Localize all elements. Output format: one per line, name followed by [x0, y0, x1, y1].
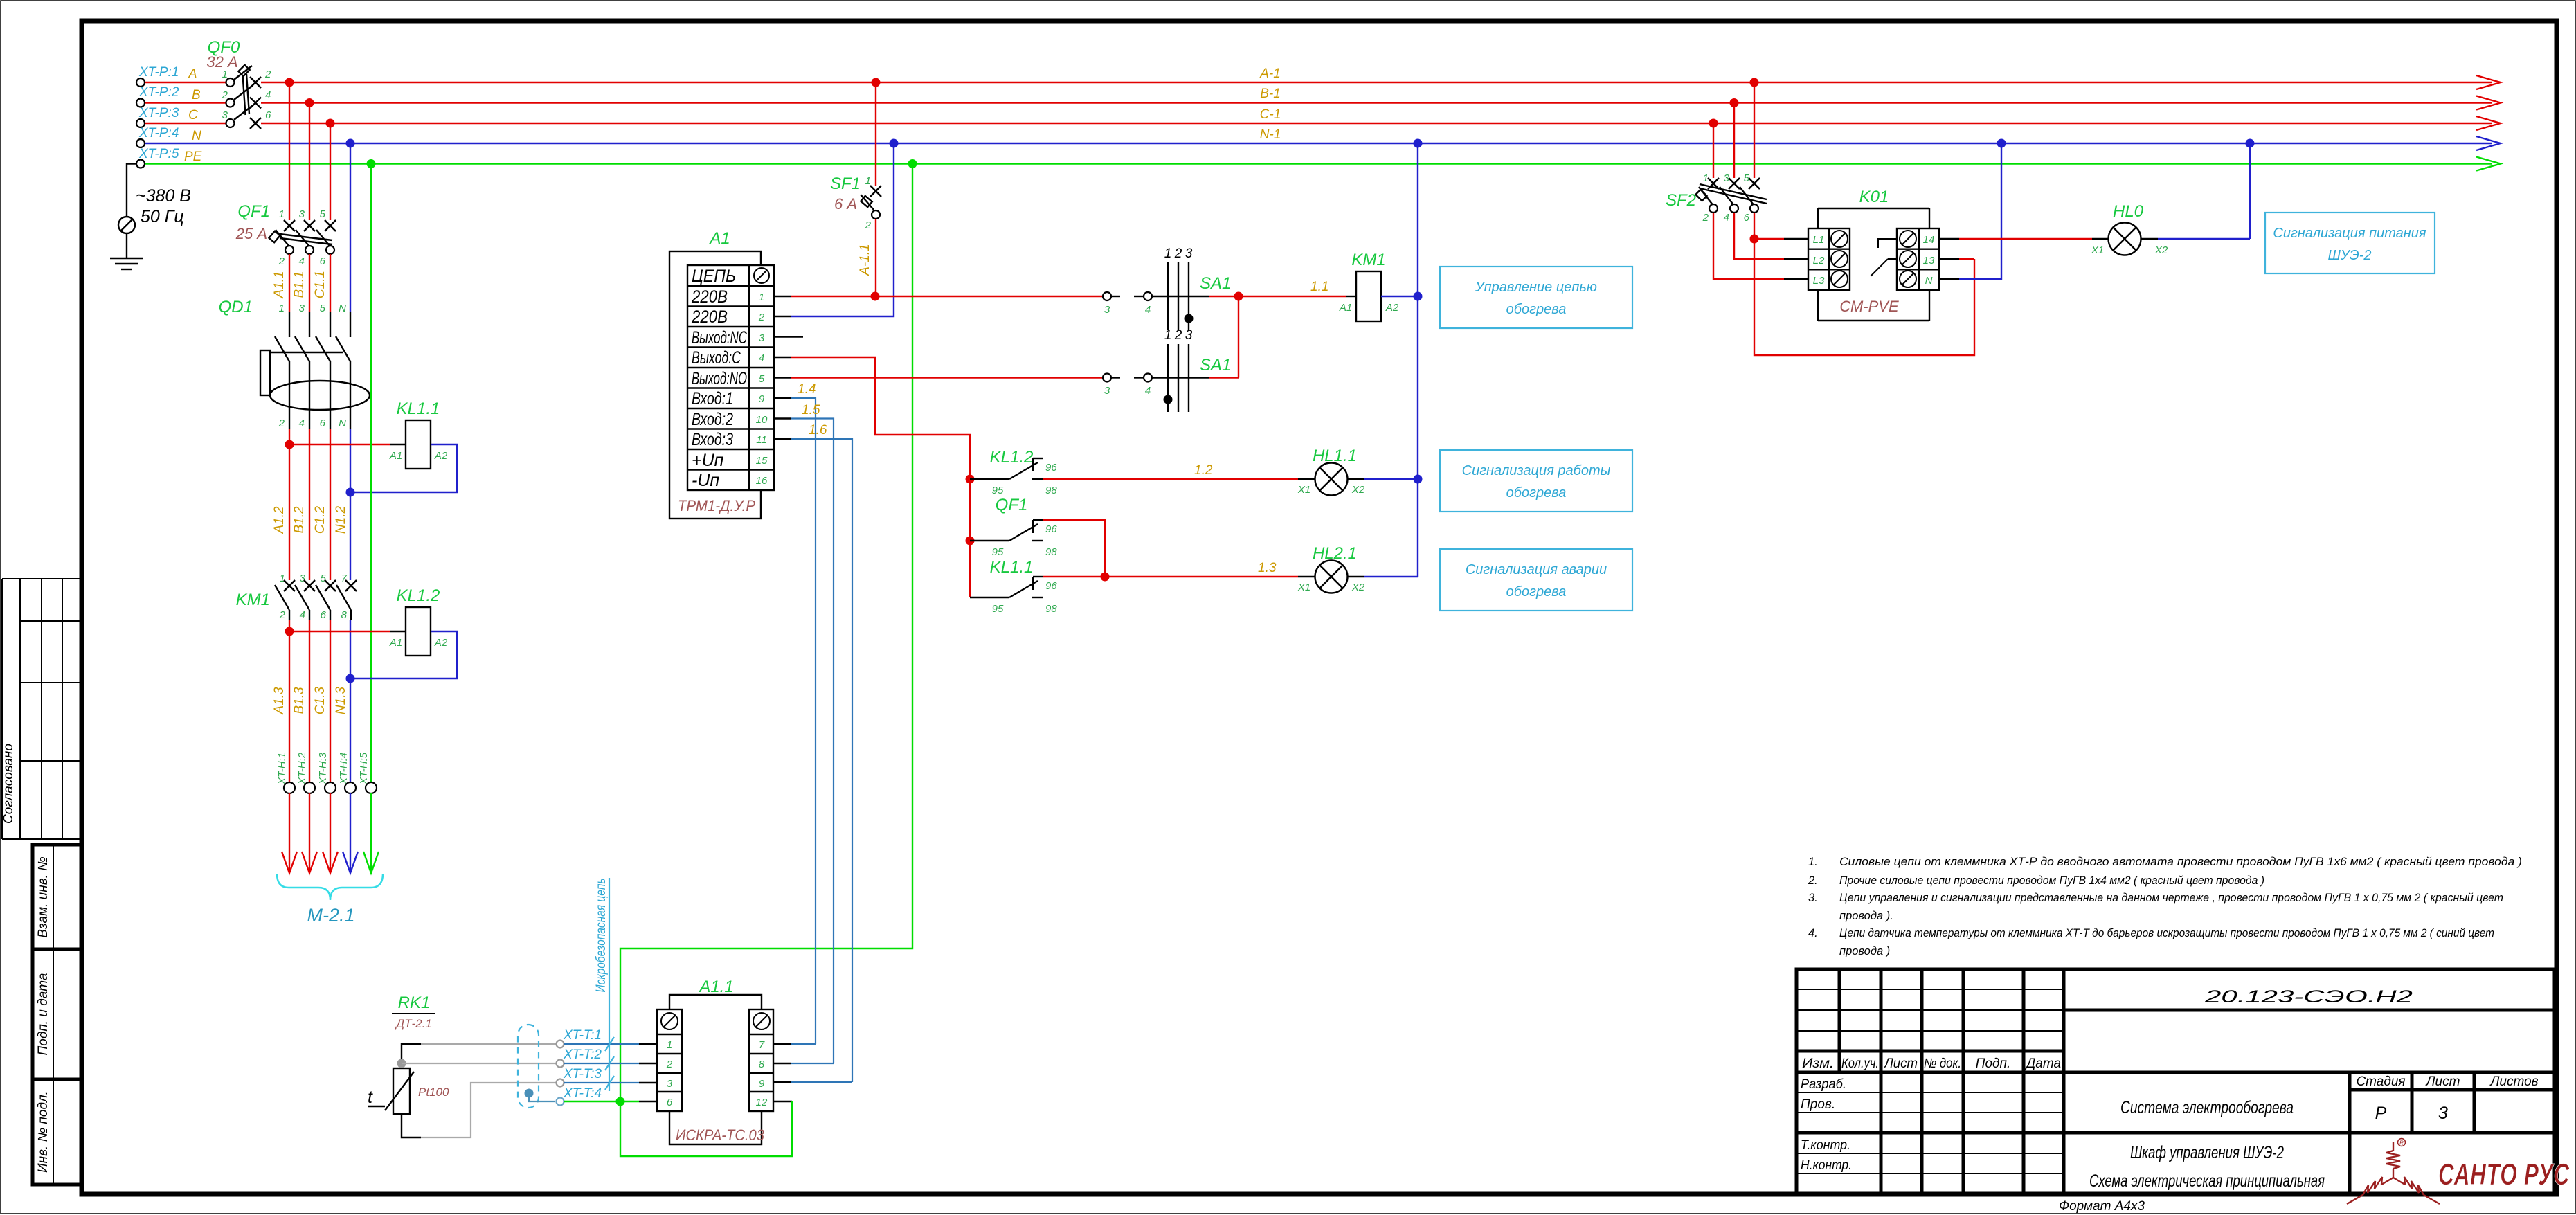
svg-text:SA1: SA1 [1200, 274, 1231, 293]
svg-text:95: 95 [992, 546, 1004, 558]
svg-text:1: 1 [279, 208, 285, 220]
svg-text:A1: A1 [1339, 302, 1352, 314]
svg-text:98: 98 [1045, 546, 1057, 558]
svg-text:Управление цепью: Управление цепью [1475, 280, 1597, 295]
svg-text:R: R [2399, 1140, 2404, 1146]
svg-text:L2: L2 [1813, 255, 1825, 267]
svg-text:Цепи управления и сигнализа: Цепи управления и сигнализации представл… [1839, 892, 2503, 904]
svg-text:Pt100: Pt100 [418, 1086, 449, 1099]
svg-text:Выход:NO: Выход:NO [692, 369, 747, 388]
svg-text:XT-P:4: XT-P:4 [138, 126, 179, 141]
svg-text:X2: X2 [1351, 484, 1365, 496]
svg-text:5: 5 [320, 208, 326, 220]
svg-text:B1.1: B1.1 [292, 271, 307, 298]
svg-text:A1: A1 [708, 229, 730, 248]
svg-text:XT-H:3: XT-H:3 [317, 752, 329, 785]
svg-text:1: 1 [667, 1039, 672, 1051]
svg-text:провода ): провода ) [1839, 945, 1890, 957]
svg-text:A: A [188, 67, 197, 82]
svg-text:N: N [339, 303, 346, 314]
svg-text:SF1: SF1 [830, 174, 861, 193]
svg-text:обогрева: обогрева [1506, 302, 1567, 317]
svg-text:2: 2 [278, 417, 285, 429]
svg-text:Подп. и дата: Подп. и дата [36, 973, 51, 1056]
svg-text:C1.2: C1.2 [313, 506, 327, 534]
svg-text:A2: A2 [434, 637, 448, 649]
svg-text:12: 12 [756, 1097, 768, 1108]
svg-text:С-1: С-1 [1260, 107, 1281, 122]
svg-text:1: 1 [759, 291, 764, 303]
svg-text:8: 8 [759, 1059, 765, 1070]
svg-text:N: N [339, 417, 346, 429]
svg-text:Сигнализация питания: Сигнализация питания [2273, 226, 2426, 241]
svg-text:4: 4 [300, 609, 305, 621]
svg-text:3: 3 [759, 332, 765, 344]
svg-text:A1: A1 [389, 637, 402, 649]
svg-text:C: C [188, 108, 198, 123]
svg-text:A1.1: A1.1 [272, 271, 287, 298]
svg-text:X1: X1 [2091, 244, 2104, 256]
svg-text:ИСКРА-ТС.03: ИСКРА-ТС.03 [676, 1126, 765, 1144]
svg-text:5: 5 [321, 573, 327, 584]
svg-text:96: 96 [1045, 580, 1057, 592]
svg-text:Схема электрическая принципиал: Схема электрическая принципиальная [2089, 1171, 2325, 1191]
svg-text:Подп.: Подп. [1976, 1056, 2011, 1071]
svg-text:№ док.: № док. [1924, 1056, 1961, 1071]
svg-text:6 А: 6 А [834, 195, 857, 213]
svg-text:СМ-PVE: СМ-PVE [1839, 298, 1899, 315]
svg-text:A1.1: A1.1 [698, 978, 733, 996]
svg-text:20.123-СЭО.Н2: 20.123-СЭО.Н2 [2204, 987, 2413, 1007]
svg-text:1.6: 1.6 [809, 423, 827, 438]
svg-text:KL1.1: KL1.1 [990, 558, 1034, 577]
svg-text:15: 15 [756, 455, 768, 467]
svg-text:QD1: QD1 [219, 298, 253, 316]
svg-text:14: 14 [1923, 234, 1935, 246]
svg-text:Инв. № подл.: Инв. № подл. [36, 1091, 51, 1173]
svg-text:XT-H:2: XT-H:2 [296, 752, 308, 785]
svg-text:Формат А4х3: Формат А4х3 [2059, 1199, 2145, 1214]
svg-text:N-1: N-1 [1260, 127, 1281, 142]
svg-text:XT-H:4: XT-H:4 [338, 753, 350, 785]
svg-text:X2: X2 [2154, 244, 2168, 256]
svg-text:9: 9 [759, 1078, 765, 1090]
svg-text:5: 5 [759, 373, 765, 385]
svg-text:2.: 2. [1808, 874, 1818, 887]
svg-text:X2: X2 [1351, 582, 1365, 593]
svg-text:QF1: QF1 [996, 496, 1028, 514]
svg-text:Дата: Дата [2025, 1056, 2061, 1071]
svg-text:95: 95 [992, 603, 1004, 615]
svg-text:+Uп: +Uп [692, 451, 724, 470]
svg-text:Цепи датчика температуры от: Цепи датчика температуры от клеммника ХТ… [1839, 927, 2494, 939]
svg-text:1: 1 [865, 175, 871, 187]
svg-text:1: 1 [1164, 246, 1172, 261]
svg-text:3: 3 [667, 1078, 673, 1090]
svg-text:Кол.уч.: Кол.уч. [1841, 1056, 1879, 1071]
svg-text:XT-T:4: XT-T:4 [563, 1086, 602, 1101]
svg-text:2: 2 [279, 609, 286, 621]
svg-text:2: 2 [1702, 212, 1709, 224]
svg-text:A2: A2 [1385, 302, 1399, 314]
svg-text:K01: K01 [1859, 188, 1889, 206]
svg-text:3: 3 [1185, 328, 1193, 343]
svg-text:-Uп: -Uп [692, 471, 719, 490]
svg-text:6: 6 [265, 109, 271, 121]
svg-text:5: 5 [1744, 172, 1750, 184]
svg-text:3: 3 [299, 303, 305, 314]
svg-text:Н.контр.: Н.контр. [1801, 1158, 1852, 1173]
svg-text:Лист: Лист [2425, 1074, 2460, 1089]
svg-text:N: N [192, 129, 201, 143]
svg-text:2: 2 [1174, 328, 1182, 343]
svg-text:50 Гц: 50 Гц [141, 207, 184, 226]
svg-text:Система электрообогрева: Система электрообогрева [2120, 1098, 2294, 1117]
svg-text:B1.3: B1.3 [292, 687, 307, 714]
svg-text:3: 3 [299, 208, 305, 220]
svg-text:A1: A1 [389, 450, 402, 462]
svg-text:XT-P:2: XT-P:2 [138, 85, 179, 100]
svg-text:Вход:3: Вход:3 [692, 430, 733, 449]
svg-text:KM1: KM1 [1351, 251, 1385, 269]
svg-text:Взам. инв. №: Взам. инв. № [36, 856, 51, 938]
svg-text:3: 3 [2438, 1104, 2448, 1123]
svg-text:6: 6 [1744, 212, 1750, 224]
svg-text:3: 3 [300, 573, 306, 584]
svg-text:ЦЕПЬ: ЦЕПЬ [692, 267, 736, 286]
svg-text:4: 4 [1724, 212, 1729, 224]
svg-text:N: N [1925, 275, 1933, 287]
svg-text:1.2: 1.2 [1194, 463, 1213, 478]
svg-text:6: 6 [321, 609, 327, 621]
svg-text:L1: L1 [1813, 234, 1825, 246]
svg-text:1: 1 [1164, 328, 1172, 343]
svg-text:7: 7 [341, 573, 348, 584]
svg-text:Пров.: Пров. [1801, 1097, 1835, 1112]
svg-text:1: 1 [280, 573, 285, 584]
svg-text:KL1.1: KL1.1 [397, 399, 440, 418]
svg-text:XT-H:1: XT-H:1 [276, 753, 288, 785]
svg-text:HL0: HL0 [2113, 202, 2144, 221]
svg-text:25 А: 25 А [235, 225, 267, 242]
svg-text:6: 6 [320, 255, 326, 267]
svg-text:4: 4 [1145, 385, 1151, 397]
svg-text:Шкаф управления ШУЭ-2: Шкаф управления ШУЭ-2 [2130, 1143, 2284, 1162]
svg-text:220В: 220В [691, 287, 728, 307]
svg-text:Вход:2: Вход:2 [692, 410, 733, 429]
svg-text:KL1.2: KL1.2 [397, 586, 440, 605]
svg-text:1.5: 1.5 [802, 403, 820, 417]
svg-text:11: 11 [756, 434, 767, 446]
svg-text:провода ).: провода ). [1839, 910, 1893, 922]
svg-text:ТРМ1-Д.У.Р: ТРМ1-Д.У.Р [678, 497, 755, 514]
svg-text:Выход:C: Выход:C [692, 348, 741, 368]
svg-text:3: 3 [1724, 172, 1730, 184]
svg-text:2: 2 [264, 69, 271, 80]
svg-text:95: 95 [992, 485, 1004, 496]
svg-text:10: 10 [756, 414, 768, 426]
svg-text:А-1.1: А-1.1 [858, 244, 872, 276]
svg-text:6: 6 [320, 417, 326, 429]
svg-text:1.: 1. [1808, 856, 1818, 868]
svg-text:Разраб.: Разраб. [1801, 1077, 1846, 1092]
svg-text:XT-P:5: XT-P:5 [138, 147, 179, 161]
svg-text:обогрева: обогрева [1506, 584, 1567, 600]
svg-text:16: 16 [756, 475, 768, 487]
svg-text:2: 2 [758, 312, 765, 323]
svg-text:KM1: KM1 [236, 591, 270, 609]
svg-text:L3: L3 [1813, 275, 1825, 287]
svg-text:2: 2 [222, 89, 228, 101]
svg-text:N1.2: N1.2 [334, 506, 348, 534]
svg-text:SA1: SA1 [1200, 356, 1231, 375]
svg-text:QF1: QF1 [237, 202, 270, 221]
svg-text:Прочие силовые цепи провест: Прочие силовые цепи провести проводом Пу… [1839, 874, 2264, 887]
svg-text:XT-H:5: XT-H:5 [358, 752, 370, 785]
svg-text:2: 2 [666, 1059, 673, 1070]
svg-text:4.: 4. [1808, 927, 1818, 939]
svg-text:XT-T:3: XT-T:3 [563, 1067, 602, 1081]
svg-text:A2: A2 [434, 450, 448, 462]
svg-text:3: 3 [222, 109, 228, 121]
svg-text:Листов: Листов [2489, 1074, 2538, 1089]
svg-text:7: 7 [759, 1039, 765, 1051]
svg-text:Силовые цепи от клеммника ХТ-: Силовые цепи от клеммника ХТ-Р до вводно… [1839, 856, 2522, 868]
svg-text:SF2: SF2 [1666, 191, 1696, 210]
svg-text:ДТ-2.1: ДТ-2.1 [395, 1017, 432, 1030]
svg-text:Выход:NC: Выход:NC [692, 328, 748, 348]
svg-text:1.4: 1.4 [798, 382, 816, 397]
svg-text:обогрева: обогрева [1506, 485, 1567, 501]
svg-text:Т.контр.: Т.контр. [1801, 1138, 1850, 1153]
svg-text:Стадия: Стадия [2356, 1074, 2405, 1089]
svg-text:В-1: В-1 [1260, 87, 1281, 101]
svg-text:X1: X1 [1297, 582, 1310, 593]
svg-text:220В: 220В [691, 307, 728, 327]
svg-text:RK1: RK1 [398, 993, 431, 1012]
svg-text:4: 4 [299, 417, 305, 429]
svg-text:PE: PE [184, 150, 202, 164]
svg-text:98: 98 [1045, 485, 1057, 496]
svg-text:Согласовано: Согласовано [1, 744, 16, 824]
svg-text:KL1.2: KL1.2 [990, 448, 1034, 467]
svg-text:Сигнализация аварии: Сигнализация аварии [1466, 562, 1607, 577]
svg-text:Сигнализация работы: Сигнализация работы [1462, 463, 1611, 478]
svg-text:6: 6 [667, 1097, 673, 1108]
svg-text:N1.3: N1.3 [334, 687, 348, 715]
svg-text:4: 4 [1145, 304, 1151, 316]
svg-text:96: 96 [1045, 523, 1057, 535]
svg-text:САНТО РУС: САНТО РУС [2438, 1158, 2570, 1191]
svg-text:C1.3: C1.3 [313, 687, 327, 715]
svg-text:XT-T:1: XT-T:1 [563, 1028, 602, 1043]
svg-text:4: 4 [759, 352, 764, 364]
svg-text:B1.2: B1.2 [292, 506, 307, 534]
svg-text:13: 13 [1923, 255, 1935, 267]
svg-text:B: B [192, 88, 201, 102]
svg-text:2: 2 [1174, 246, 1182, 261]
svg-text:5: 5 [320, 303, 326, 314]
svg-text:98: 98 [1045, 603, 1057, 615]
svg-text:t: t [368, 1088, 373, 1107]
svg-text:2: 2 [865, 219, 872, 231]
svg-text:1.1: 1.1 [1310, 280, 1328, 294]
svg-text:1: 1 [279, 303, 285, 314]
svg-text:XT-T:2: XT-T:2 [563, 1047, 602, 1062]
svg-text:A1.2: A1.2 [272, 506, 287, 534]
svg-text:1.3: 1.3 [1258, 561, 1277, 575]
svg-text:2: 2 [278, 255, 285, 267]
svg-text:3.: 3. [1808, 892, 1818, 904]
svg-text:3: 3 [1185, 246, 1193, 261]
svg-text:~380 В: ~380 В [136, 186, 191, 206]
svg-text:М-2.1: М-2.1 [307, 905, 354, 926]
svg-text:C1.1: C1.1 [313, 271, 327, 298]
svg-text:ШУЭ-2: ШУЭ-2 [2327, 248, 2371, 263]
svg-text:9: 9 [759, 393, 765, 405]
svg-text:XT-P:3: XT-P:3 [138, 106, 179, 120]
svg-text:1: 1 [222, 69, 228, 80]
svg-text:3: 3 [1104, 304, 1110, 316]
svg-text:4: 4 [265, 89, 271, 101]
svg-text:Лист: Лист [1883, 1056, 1918, 1071]
svg-text:А-1: А-1 [1259, 66, 1281, 81]
svg-text:96: 96 [1045, 462, 1057, 474]
svg-text:XT-P:1: XT-P:1 [138, 65, 179, 80]
svg-text:1: 1 [1703, 172, 1709, 184]
svg-text:3: 3 [1104, 385, 1110, 397]
svg-text:A1.3: A1.3 [272, 687, 287, 715]
svg-text:Изм.: Изм. [1802, 1056, 1834, 1071]
svg-text:Вход:1: Вход:1 [692, 389, 733, 408]
svg-text:8: 8 [341, 609, 348, 621]
svg-text:Р: Р [2375, 1104, 2387, 1123]
svg-text:Искробезопасная цепь: Искробезопасная цепь [594, 879, 609, 993]
svg-text:X1: X1 [1297, 484, 1310, 496]
svg-text:4: 4 [299, 255, 305, 267]
